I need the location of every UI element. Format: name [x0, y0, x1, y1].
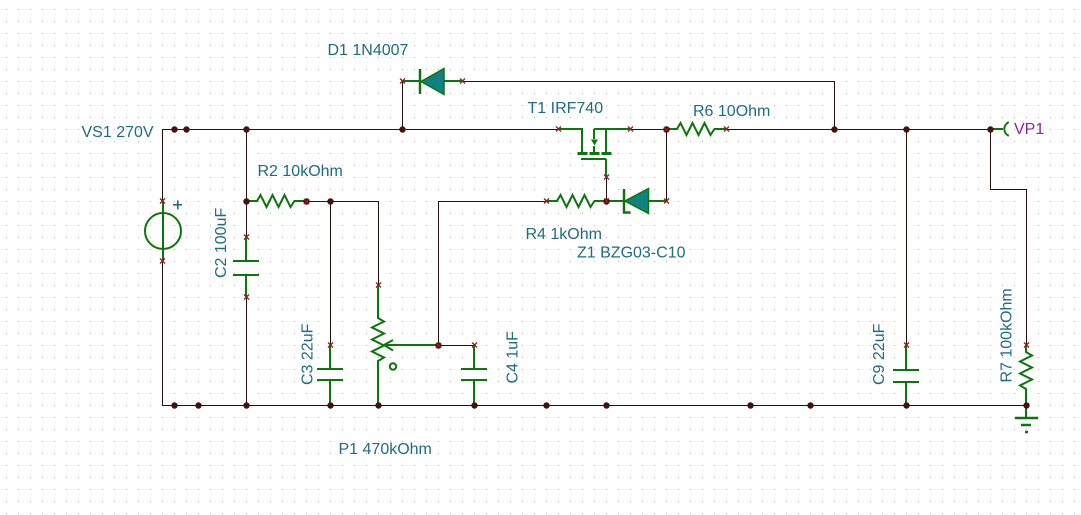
wire bottom rail	[162, 405, 1026, 407]
T1 arrow	[591, 140, 598, 146]
wire R6 node to Z1 anode	[666, 129, 668, 201]
wire VP1 node to R7	[991, 129, 1027, 345]
pin marker R4 left	[544, 199, 549, 204]
ground	[1015, 405, 1038, 432]
pin marker R6 right	[724, 127, 729, 132]
resistor R6	[666, 123, 726, 135]
wire top rail middle segment	[630, 129, 666, 131]
wire C3 branch down	[330, 201, 332, 345]
pin marker P1 top	[376, 283, 381, 288]
wire top rail right segment	[726, 129, 990, 131]
zener diode Z1	[606, 189, 666, 214]
pin marker R7 top	[1024, 343, 1029, 348]
potentiometer P1	[372, 285, 384, 405]
voltage source VS1	[145, 201, 181, 261]
svg-text:VS1 270V: VS1 270V	[82, 124, 154, 141]
P1 rotation marker o	[390, 363, 396, 369]
resistor R7	[1020, 345, 1032, 405]
pin marker D1 left	[400, 79, 405, 84]
pin marker C2 top	[244, 235, 249, 240]
wire VS1 bottom to rail	[162, 261, 164, 405]
svg-text:P1 470kOhm: P1 470kOhm	[339, 441, 432, 458]
wire C9 branch down	[906, 129, 908, 345]
pin marker C9 top	[904, 343, 909, 348]
svg-text:R7 100kOhm: R7 100kOhm	[999, 288, 1016, 382]
pin marker C2 bottom	[244, 295, 249, 300]
resistor R4	[546, 195, 606, 207]
P1 wiper arrow	[384, 340, 438, 351]
MOSFET T1	[558, 129, 630, 177]
diode D1	[402, 69, 462, 95]
wire wiper node to C4	[438, 345, 474, 347]
wire C2 branch down	[246, 129, 248, 237]
capacitor C2	[233, 237, 259, 297]
capacitor C4	[461, 345, 487, 405]
pin marker R2 right on junction	[304, 199, 309, 204]
VS1 plus sign	[173, 200, 182, 209]
pin marker T1 drain	[556, 127, 561, 132]
svg-text:D1 1N4007: D1 1N4007	[328, 42, 409, 59]
wire R4 left to wiper node	[439, 202, 547, 346]
svg-text:C2 100uF: C2 100uF	[213, 208, 230, 278]
pin marker VS1 top	[160, 199, 165, 204]
capacitor C9	[893, 345, 919, 405]
svg-text:Z1 BZG03-C10: Z1 BZG03-C10	[577, 245, 686, 262]
svg-text:R2 10kOhm: R2 10kOhm	[258, 163, 343, 180]
wire R2 right to C3 branch	[306, 201, 378, 203]
wire to P1 top	[378, 201, 380, 285]
wire D1 anode return	[462, 82, 835, 130]
pin marker R6 left on junction	[664, 127, 669, 132]
svg-text:C9 22uF: C9 22uF	[871, 323, 888, 385]
svg-text:C3 22uF: C3 22uF	[299, 323, 316, 385]
pin marker VS1 bottom	[160, 259, 165, 264]
pin marker T1 source	[628, 127, 633, 132]
pin marker C3 top	[328, 343, 333, 348]
wire C2 bottom to rail	[246, 297, 248, 405]
resistor R2	[246, 195, 306, 207]
pin marker Z1 cathode / R4 right on junction	[604, 199, 609, 204]
svg-text:VP1: VP1	[1014, 121, 1044, 138]
wire top rail left segment	[163, 130, 559, 202]
wire T1 gate to R4 node	[606, 177, 608, 201]
pin marker D1 right	[460, 79, 465, 84]
pin marker C4 top	[472, 343, 477, 348]
capacitor C3	[317, 345, 343, 405]
svg-text:R4 1kOhm: R4 1kOhm	[526, 226, 602, 243]
pin marker Z1 anode	[664, 199, 669, 204]
pin marker P1 wiper on junction	[436, 343, 441, 348]
junction node dots middle row	[243, 198, 609, 348]
tie VP1	[990, 122, 1009, 136]
svg-text:C4 1uF: C4 1uF	[504, 331, 521, 384]
junction node dots bottom rail	[171, 402, 1029, 408]
svg-text:T1 IRF740: T1 IRF740	[528, 100, 604, 117]
junction node dots top rail	[171, 126, 993, 132]
wire D1 cathode branch	[402, 81, 404, 129]
pin marker T1 gate	[604, 175, 609, 180]
svg-text:R6 10Ohm: R6 10Ohm	[693, 103, 770, 120]
